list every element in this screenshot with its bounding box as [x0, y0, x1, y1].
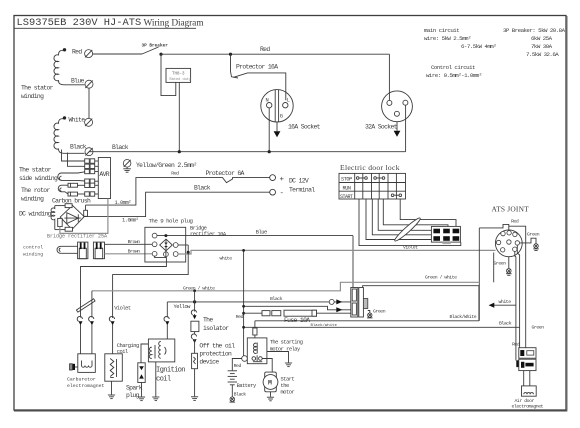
note: main circuit wire table [424, 27, 566, 79]
svg-text:isolator: isolator [203, 325, 229, 332]
connector: carb small plug [70, 364, 78, 370]
label: Carburetor electromagnet [67, 376, 105, 389]
svg-text:Black/white: Black/white [311, 323, 338, 328]
protector 6A thermal element [206, 170, 270, 182]
solenoid: carburetor electromagnet [78, 354, 96, 373]
bridge rectifier D2 10A diamond [160, 239, 173, 251]
protector 16A thermal breaker [231, 54, 286, 100]
wire: TH8-3 loop [161, 54, 179, 152]
wire: Green/white line [92, 275, 479, 292]
wire: door lock harness c1 [359, 199, 461, 246]
svg-text:AVR: AVR [99, 171, 109, 178]
ground: 32A socket earth arrow [394, 122, 401, 137]
wire: door lock harness c3 [372, 199, 431, 235]
svg-text:Air door: Air door [515, 398, 535, 404]
connector stack lower [516, 359, 536, 370]
node: breaker output junction [159, 53, 162, 56]
svg-text:Black: Black [234, 391, 247, 397]
node: 16A N junction [268, 150, 271, 153]
wire: Brown 1 [105, 239, 153, 245]
fuse F1 10A [236, 310, 351, 324]
svg-text:Black: Black [70, 144, 87, 151]
connector (Blue bullet) [85, 80, 93, 88]
svg-text:RUN: RUN [343, 185, 351, 191]
ground: Yellow/Green earth bolt [123, 160, 131, 173]
wire: white / Violet line to ATS [178, 245, 495, 262]
bridge terminal lug top [55, 204, 72, 208]
svg-text:Battery: Battery [237, 383, 257, 389]
svg-text:Yellow/Green 2.5mm²: Yellow/Green 2.5mm² [136, 162, 197, 169]
wire: 9-hole bottom pin to carburetor net [81, 251, 167, 300]
wire+ground: battery earth stud [230, 385, 236, 402]
svg-text:Green: Green [494, 260, 507, 266]
wire: door lock harness c5 [383, 199, 448, 226]
svg-text:Fuse 10A: Fuse 10A [284, 317, 310, 324]
wire: Red feed into ATS [479, 218, 519, 230]
svg-text:Terminal: Terminal [289, 187, 315, 194]
connector: 9 hole plug box [145, 227, 186, 262]
wire: relay coil riser with connector [253, 321, 257, 338]
svg-text:Violet: Violet [114, 306, 131, 312]
wire: black bus line [89, 105, 406, 152]
charging coil L6 [105, 343, 139, 381]
label: The stator side winding [19, 167, 58, 183]
wire: Yellow line to relay connector [167, 296, 350, 310]
node: greenwhite-isolator junction [193, 289, 196, 292]
wire Blue-to-White [88, 88, 90, 118]
carbon brush B2 [68, 192, 85, 196]
wire: Black to ATS vertical [244, 326, 520, 328]
wire: white net vertical to relay button [243, 250, 245, 355]
svg-text:The stator: The stator [21, 85, 54, 92]
svg-text:6-7.5kW 4mm²: 6-7.5kW 4mm² [461, 43, 496, 50]
wire: to air door electromagnet [524, 371, 530, 386]
node: yellow-isolator junction [193, 300, 196, 303]
bridge terminal lug bottom [55, 227, 73, 231]
control winding L5 [57, 246, 78, 253]
breaker 3P switch blade [142, 44, 169, 55]
wire: Black brush lead with riser [84, 185, 270, 224]
relay K1 starting motor relay [247, 338, 302, 364]
socket X1 16A [261, 90, 293, 122]
svg-text:Spark: Spark [126, 384, 143, 391]
svg-text:Green: Green [373, 309, 386, 315]
connector hook a [191, 310, 196, 318]
label: Ignition coil [156, 367, 185, 384]
svg-text:Red: Red [511, 218, 519, 224]
terminal: DC12V minus [270, 189, 284, 198]
label: The stator winding [21, 85, 54, 101]
svg-text:The rotor: The rotor [21, 187, 50, 194]
wire: second relay line with arrow [244, 306, 351, 312]
connector: inline ring and arrow on yellow line [329, 299, 342, 304]
connector hook b [191, 332, 196, 344]
svg-text:electromagnet: electromagnet [512, 404, 544, 410]
wire: ATS sub-box left vertical [478, 228, 480, 321]
svg-text:Carburetor: Carburetor [67, 376, 96, 382]
9-hole pins [152, 233, 178, 256]
wire: 16A N down to black bus [268, 108, 270, 152]
connector J2 6-pin block [431, 226, 460, 244]
svg-text:+: + [280, 176, 285, 184]
svg-text:Brown: Brown [128, 248, 141, 254]
wire: oil device to ground [194, 369, 196, 397]
svg-text:-: - [280, 190, 285, 198]
svg-text:Protector 16A: Protector 16A [236, 63, 278, 70]
svg-text:Green: Green [527, 231, 540, 237]
battery G1 [228, 371, 257, 398]
svg-text:Black: Black [499, 321, 512, 327]
label: Bridge rectifier 10A [190, 226, 227, 238]
svg-text:Red: Red [72, 49, 82, 56]
svg-text:LS9375EB 230V HJ-ATS: LS9375EB 230V HJ-ATS [17, 17, 142, 29]
svg-text:7kW 30A: 7kW 30A [531, 43, 553, 50]
bridge terminal lug right-up [84, 205, 88, 216]
connector (Red bullet) [85, 50, 93, 58]
svg-text:Wiring Diagram: Wiring Diagram [144, 18, 205, 28]
svg-text:motor: motor [281, 390, 295, 396]
svg-text:Electric door lock: Electric door lock [340, 163, 400, 172]
svg-text:Red: Red [236, 314, 244, 320]
solenoid: air door electromagnet [512, 386, 544, 410]
svg-text:Rated duty: Rated duty [170, 77, 192, 82]
svg-text:device: device [199, 359, 219, 366]
label: The rotor winding [21, 187, 50, 203]
svg-text:Green: Green [532, 325, 545, 331]
wire+ground: ignition coil earth [152, 362, 159, 401]
connector plug P1 [78, 242, 88, 259]
terminal: DC12V plus [270, 175, 285, 184]
label: DC 12V Terminal [289, 178, 315, 194]
svg-text:Bridge: Bridge [190, 226, 207, 232]
svg-text:The starting: The starting [270, 340, 303, 346]
svg-text:Control circuit: Control circuit [431, 64, 475, 71]
svg-text:coil: coil [156, 376, 171, 384]
svg-text:Protector 6A: Protector 6A [206, 170, 245, 177]
svg-text:Brown: Brown [128, 239, 141, 245]
svg-text:Green / white: Green / white [183, 285, 215, 291]
wire: door lock harness c2 [366, 199, 431, 240]
connector plug P2 [93, 242, 104, 259]
svg-text:ATS JOINT: ATS JOINT [492, 205, 530, 214]
relay button terminal [242, 356, 248, 362]
svg-text:main circuit: main circuit [424, 27, 459, 34]
ignition coil T1 [148, 339, 174, 362]
DC winding coil on left leg [51, 206, 55, 230]
node: TH8-3 drop junction [178, 150, 181, 153]
svg-text:7.5kW 32.6A: 7.5kW 32.6A [526, 51, 559, 58]
wire: Blue from 9-hole plug to relay connector [157, 229, 353, 287]
svg-text:The: The [203, 316, 213, 323]
svg-text:6kW 25A: 6kW 25A [531, 35, 553, 42]
svg-text:electromagnet: electromagnet [67, 383, 105, 389]
connector J3 starting relay plug left [351, 288, 358, 318]
svg-text:wire: 0.5mm²-1.0mm²: wire: 0.5mm²-1.0mm² [426, 72, 482, 79]
wire: ATS left-mid pin drop to green/white [493, 253, 495, 283]
title: LS9375EB 230V HJ-ATS Wiring Diagram [14, 17, 204, 29]
cable wrap ellipse [393, 216, 422, 243]
svg-text:Ignition: Ignition [156, 367, 185, 375]
wire: ATS pin vertical 2 [517, 245, 519, 350]
svg-text:coil: coil [117, 349, 128, 355]
svg-text:Black: Black [270, 296, 283, 302]
label: control winding [23, 245, 43, 258]
isolator box [191, 316, 229, 332]
spark plug E1 [138, 363, 145, 383]
AVR connector pairs rows 1-6 [85, 159, 99, 196]
svg-text:DC winding: DC winding [19, 211, 52, 218]
connector ATS joint round plug [495, 230, 522, 257]
svg-text:wire: 5kW 2.5mm²: wire: 5kW 2.5mm² [424, 35, 471, 42]
svg-text:1.0mm²: 1.0mm² [115, 200, 132, 206]
stator main winding L1 (Red/Blue) [54, 48, 85, 85]
wire: coil HT lead to spark plug [141, 344, 148, 363]
svg-text:3P Breaker: 3P Breaker [142, 44, 169, 49]
svg-text:Blue: Blue [256, 229, 267, 235]
wire: Violet branch to charging coil [113, 252, 189, 318]
svg-text:Black: Black [112, 144, 129, 151]
svg-text:TH8-3: TH8-3 [172, 73, 185, 77]
ground: connector J3 green earth stud [367, 309, 386, 318]
wire: bridge negative to AVR (gray) [60, 199, 108, 234]
svg-text:L: L [287, 98, 290, 104]
wire: door lock harness c4 [378, 199, 431, 230]
svg-text:winding: winding [23, 252, 43, 258]
svg-text:1.0mm²: 1.0mm² [122, 218, 139, 224]
svg-text:white: white [220, 255, 233, 261]
wire: relay to battery [232, 359, 241, 371]
wire: Green jumper to frame ground [520, 231, 540, 243]
wire: isolator riser [194, 291, 196, 312]
svg-text:the: the [281, 383, 289, 389]
svg-text:START: START [340, 194, 353, 200]
wire+ground: charging coil earth [108, 381, 115, 398]
svg-text:rectifier 10A: rectifier 10A [190, 232, 227, 238]
wire: door lock harness c6 [400, 199, 456, 226]
connector (White bullet) [85, 118, 93, 126]
stator aux winding L2 (White/Black) [54, 116, 87, 153]
contacts STOP row [356, 177, 384, 180]
bridge rectifier D1 25A diamond [60, 205, 84, 229]
svg-text:32A Socket: 32A Socket [365, 123, 398, 130]
svg-text:Red: Red [512, 342, 520, 348]
wire+ground: motor earth [267, 392, 274, 401]
node: protector branch junction [229, 53, 232, 56]
wire: condenser right leg + hook [89, 291, 94, 354]
svg-text:Red: Red [171, 171, 179, 177]
wire: Red bus to 32A socket corner [161, 46, 389, 100]
svg-text:16A Socket: 16A Socket [288, 123, 321, 130]
svg-text:side winding: side winding [19, 175, 58, 182]
svg-text:M: M [268, 380, 272, 387]
svg-text:3P Breaker: 5kW 20.8A: 3P Breaker: 5kW 20.8A [503, 27, 566, 34]
wire: Black/White loop top [363, 286, 479, 321]
svg-text:white: white [499, 299, 512, 305]
wire+ground: spark plug earth [138, 383, 145, 401]
AVR box U1 [98, 158, 110, 199]
switch S1 electric door lock table [339, 173, 406, 200]
svg-text:Bridge rectifier 25A: Bridge rectifier 25A [47, 234, 107, 240]
svg-text:protection: protection [199, 351, 232, 358]
svg-text:STOP: STOP [341, 177, 352, 183]
label: Spark plug [126, 384, 143, 399]
wire: yellow corner to ignition coil [164, 302, 169, 339]
svg-text:Black: Black [194, 185, 211, 192]
carbon brush B1 [68, 183, 85, 187]
svg-text:winding: winding [21, 196, 44, 203]
wire: green feed over ATS to air door (long vertical) [509, 226, 526, 348]
connector (Black bullet) [85, 148, 93, 156]
socket X2 32A [382, 91, 413, 122]
svg-text:control: control [23, 245, 43, 251]
oil protection device box [192, 343, 236, 369]
wire: Black/White relay line [255, 321, 479, 328]
wire: ATS pin vertical 1 [515, 252, 516, 361]
relay TH8-3 box [166, 68, 192, 82]
svg-text:Red: Red [260, 46, 270, 53]
svg-text:plug: plug [126, 392, 140, 399]
wire: ATS bottom pin to earth stud [494, 257, 509, 269]
connector stack Red/air-door upper [512, 342, 536, 359]
svg-text:The 9 hole plug: The 9 hole plug [149, 218, 193, 225]
node: branch dots on white net [242, 249, 245, 329]
svg-text:G: G [280, 114, 283, 120]
capacitor C1 condenser diagonal [76, 299, 95, 312]
wire: white stub with arrow [489, 299, 516, 308]
svg-text:Off the oil: Off the oil [199, 343, 235, 350]
contacts START row [391, 194, 401, 197]
svg-text:Yellow: Yellow [174, 304, 192, 310]
wire: Brown 2 (gray) [105, 248, 153, 254]
svg-text:White: White [69, 117, 86, 124]
svg-text:Blue: Blue [71, 78, 85, 85]
wire: coil taps to AVR rows 1-2 [62, 150, 85, 167]
svg-text:Red: Red [234, 363, 242, 369]
connector J3 right half [359, 288, 368, 318]
wire: Red main line from bullet to breaker [93, 53, 142, 55]
wire: Red brush lead with vertical riser [86, 171, 219, 207]
wire: charging coil hook and drop [109, 316, 114, 353]
bridge terminal lug left-down [58, 218, 63, 226]
wire: isolator to oil device [194, 340, 196, 354]
wire: relay contact to motor [262, 359, 272, 373]
wire+ground: relay earth [267, 352, 292, 367]
ground: oil device [191, 397, 198, 401]
ground: ATS right earth stud [533, 244, 539, 251]
stator side winding L3 [58, 172, 85, 181]
ground: ATS bottom earth stud [506, 269, 512, 276]
svg-text:Green / white: Green / white [425, 275, 457, 281]
rotor winding L4 [58, 185, 68, 194]
wire: condenser left leg + hook [77, 300, 82, 354]
svg-text:The stator: The stator [19, 167, 52, 174]
motor M1 start motor [263, 372, 294, 396]
svg-text:DC 12V: DC 12V [289, 178, 309, 185]
svg-text:Black/White: Black/White [450, 314, 477, 320]
svg-text:Start: Start [281, 377, 295, 383]
ground: 16A socket earth arrow [274, 122, 281, 137]
svg-text:N: N [266, 98, 269, 104]
svg-text:winding: winding [21, 93, 44, 100]
